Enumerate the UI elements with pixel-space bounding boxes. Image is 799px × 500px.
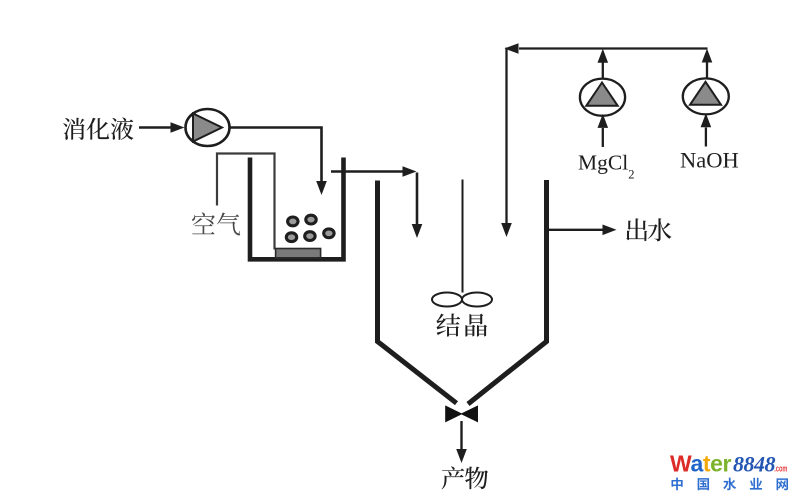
label 出水 (effluent)	[626, 218, 671, 241]
label 结晶 (crystallization)	[436, 314, 487, 337]
pipe: product discharge arrow	[456, 421, 467, 463]
pipe: aeration tank overflow to crystallizer	[331, 166, 422, 238]
pump P1 (feed pump)	[186, 109, 230, 146]
discharge valve (bowtie)	[445, 405, 462, 422]
pump P2 (MgCl2 dosing pump)	[580, 79, 625, 116]
crystallizer vessel left wall	[378, 181, 457, 404]
label 产物 (product)	[442, 466, 489, 489]
pipe: NaOH pump discharge riser	[702, 49, 713, 80]
label 消化液 (digestate)	[63, 118, 133, 140]
logo 中国水业网	[671, 478, 787, 491]
pipe: MgCl2 pump discharge riser	[598, 49, 609, 80]
pipe: effluent outlet arrow	[549, 225, 617, 236]
pipe: pump P1 outlet into aeration tank	[230, 128, 327, 196]
pipe: NaOH suction arrow	[701, 113, 712, 146]
svg-text:8848: 8848	[733, 451, 776, 476]
label 空气 (air)	[192, 212, 240, 235]
pipe: MgCl2 suction arrow	[598, 114, 609, 147]
air diffuser plate	[276, 249, 321, 258]
svg-text:.com: .com	[774, 463, 787, 474]
svg-text:Water: Water	[670, 450, 732, 476]
air pipe (down-comer to diffuser)	[217, 154, 275, 250]
logo Water8848.com	[670, 450, 788, 476]
svg-text:NaOH: NaOH	[680, 148, 739, 173]
air bubbles	[286, 215, 334, 241]
stirrer shaft and impeller	[432, 180, 492, 307]
pump P3 (NaOH dosing pump)	[683, 78, 729, 114]
aeration tank (stripping vessel)	[250, 158, 344, 260]
crystallizer vessel right wall	[468, 180, 547, 404]
pipe: digestate inlet arrow	[139, 122, 185, 133]
pipe: chemical dosing line into crystallizer	[501, 43, 707, 237]
